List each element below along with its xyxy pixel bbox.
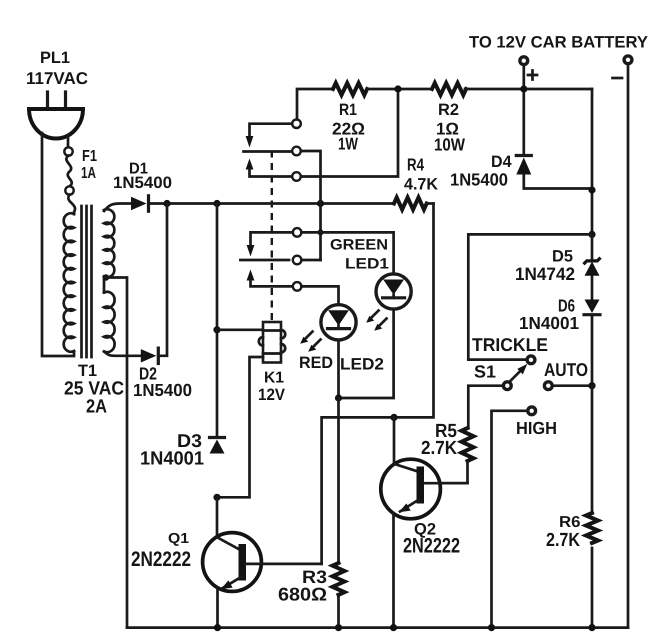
relay contact upper A [292, 119, 301, 128]
label R5 2.7K [421, 421, 457, 459]
label R1 22ohm 1W [332, 101, 365, 154]
transformer T1 core [82, 206, 92, 357]
arrows LED1 emission [366, 311, 386, 331]
node bus-K1 junction [213, 200, 220, 207]
label R6 2.7K [546, 514, 581, 551]
resistor R5 [462, 428, 474, 461]
terminal S1 common [503, 382, 511, 390]
wire battery minus to bus [627, 64, 630, 628]
label R2 1ohm 10W [434, 101, 465, 155]
svg-text:HIGH: HIGH [516, 418, 557, 438]
label D4 1N5400 [450, 153, 512, 190]
node R1 R2 junction [394, 85, 401, 92]
relay contact lower A [293, 228, 302, 237]
svg-text:TO 12V CAR BATTERY: TO 12V CAR BATTERY [469, 34, 648, 52]
svg-text:K1: K1 [264, 370, 284, 387]
node bus Q1 emitter [214, 624, 221, 631]
LED2 red [321, 305, 356, 340]
transistor Q1 [203, 533, 262, 592]
node LED junction A [335, 394, 342, 401]
label D6 1N4001 [519, 296, 579, 334]
wire contact C to R1 right node [301, 89, 398, 177]
LED1 green [376, 274, 411, 309]
wire battery plus to D4 [522, 65, 525, 156]
node Q2 collector junction [390, 414, 397, 421]
wire Q1 emitter to bus [216, 588, 219, 628]
arrows LED2 emission [300, 332, 320, 352]
node AUTO rail junction [588, 382, 595, 389]
label GREEN LED1 [330, 237, 389, 273]
node bus Q2 emitter [390, 624, 397, 631]
wire R6 to bottom bus [591, 548, 594, 628]
wire R3 to bottom bus [337, 597, 340, 628]
svg-text:TRICKLE: TRICKLE [472, 334, 548, 355]
wire secondary bottom to D2 [104, 352, 141, 356]
label minus sign [613, 77, 623, 80]
wire D4 anode to rail [524, 175, 592, 189]
transformer T1 secondary upper winding [104, 209, 114, 277]
svg-text:PL1: PL1 [40, 49, 70, 67]
label PL1 [26, 49, 88, 88]
label D5 1N4742 [515, 248, 575, 285]
svg-text:GREEN: GREEN [330, 237, 388, 254]
wire Q2 collector [393, 417, 396, 464]
svg-text:LED2: LED2 [340, 356, 384, 374]
label D3 1N4001 [140, 430, 204, 470]
svg-text:1N4001: 1N4001 [519, 313, 579, 333]
label T1 25VAC 2A [64, 362, 124, 418]
wire LED2 cathode down [337, 340, 340, 398]
terminal HIGH [528, 407, 536, 415]
svg-text:1A: 1A [81, 165, 96, 182]
label RED LED2 [299, 354, 384, 374]
svg-text:2.7K: 2.7K [421, 438, 457, 459]
wire R2 to right rail [465, 88, 592, 91]
wire lower contact C to LED2 [301, 286, 338, 304]
transformer T1 secondary lower winding [104, 292, 115, 352]
plug PL1 [29, 92, 83, 139]
wire HIGH to bottom bus [492, 411, 528, 628]
arrow relay arm up (upper) [246, 159, 293, 177]
diode D1 [131, 196, 149, 211]
terminal TRICKLE [527, 356, 535, 364]
svg-text:RED: RED [299, 354, 333, 372]
wire main bus from D1 to R4 [149, 202, 395, 205]
relay coil K1 [259, 322, 285, 363]
wire Q1 base [246, 563, 322, 566]
wire R5 to Q2 base [425, 461, 468, 483]
wire plug right cord [67, 135, 70, 147]
relay contact upper B [292, 147, 301, 156]
svg-text:680Ω: 680Ω [278, 584, 327, 605]
zener diode D5 [584, 234, 601, 275]
wire contact A to moving arm [250, 124, 293, 137]
svg-text:4.7K: 4.7K [404, 176, 438, 194]
wire right rail top [591, 89, 594, 234]
svg-text:D4: D4 [491, 153, 512, 171]
resistor R2 [432, 83, 466, 95]
node lower contact bus crossing [318, 229, 324, 235]
wire rail to K1 D3 Q1 [216, 204, 219, 438]
svg-text:D5: D5 [552, 248, 573, 266]
relay blade bar (lower) [240, 259, 289, 262]
terminal battery minus [624, 56, 632, 64]
svg-text:117VAC: 117VAC [26, 69, 88, 88]
svg-text:1N5400: 1N5400 [450, 170, 508, 190]
svg-text:1W: 1W [338, 135, 359, 154]
resistor R4 [394, 198, 427, 210]
svg-text:R6: R6 [559, 514, 581, 531]
transistor Q2 [381, 459, 441, 519]
label R3 680ohm [278, 567, 327, 605]
svg-text:1N4001: 1N4001 [140, 449, 204, 470]
relay contact lower B [293, 256, 302, 265]
node K1 top junction [213, 326, 220, 333]
wire bottom bus [127, 626, 628, 629]
node bus HIGH wire [488, 624, 495, 631]
wire Q2 emitter to bus [392, 514, 395, 628]
node trickle branch junction [588, 231, 595, 238]
switch S1 arm [510, 364, 528, 382]
relay contact upper C [292, 172, 301, 181]
wire K1 coil bottom to Q1 collector node [217, 357, 263, 497]
wire LED node to R3 [337, 398, 340, 563]
arrow relay arm down (upper) [246, 136, 254, 148]
wire Q2 base [424, 482, 468, 485]
terminal AUTO [544, 382, 552, 390]
label F1 1A [81, 148, 97, 182]
node bus-relay junction [317, 200, 324, 207]
wire lower contact A to arm [251, 232, 293, 245]
wire trickle feed [468, 234, 592, 359]
svg-text:1N4742: 1N4742 [515, 264, 575, 284]
svg-text:10W: 10W [434, 135, 465, 155]
node bus R3 [335, 624, 342, 631]
wire S1 common to R5 [468, 386, 503, 428]
wire D2 output up to bus [158, 204, 167, 356]
transformer T1 primary winding [64, 213, 74, 352]
resistor R1 [333, 83, 367, 95]
terminal battery plus [520, 57, 528, 65]
wire contact B to bus [301, 151, 321, 260]
wire plug left cord [42, 133, 74, 356]
wire to K1 coil top [217, 328, 263, 331]
node bus R6 [588, 624, 595, 631]
svg-text:LED1: LED1 [345, 256, 389, 273]
wire lower contact A to LED1 [301, 232, 393, 273]
relay blade bar (upper) [244, 150, 293, 153]
node bus-D2 junction [163, 200, 170, 207]
arrow relay arm down (lower) [247, 245, 255, 257]
label D2 1N5400 [133, 364, 192, 401]
svg-text:T1: T1 [78, 362, 97, 380]
label R4 4.7K [404, 155, 438, 194]
wire D6 to auto node [591, 316, 594, 386]
svg-text:AUTO: AUTO [544, 359, 588, 380]
svg-text:Q1: Q1 [168, 531, 189, 547]
resistor R3 [333, 563, 345, 595]
wire LED1 cathode down [339, 309, 394, 398]
arrow relay arm up (lower) [247, 270, 293, 287]
wire rail to R6 [591, 386, 594, 513]
wire AUTO to rail [552, 384, 592, 387]
svg-text:R4: R4 [407, 155, 424, 175]
svg-text:2.7K: 2.7K [546, 530, 580, 551]
svg-text:S1: S1 [474, 362, 496, 382]
node D3 K1 Q1 junction [213, 494, 220, 501]
resistor R6 [586, 513, 598, 543]
relay contact lower C [293, 282, 302, 291]
wire fuse to primary [68, 195, 75, 214]
dashed relay mechanical link [271, 151, 273, 323]
wire center tap to bottom bus [104, 278, 127, 628]
label Q1 2N2222 [131, 531, 191, 571]
wire Q1 collector [216, 497, 219, 537]
wire lower contact B to bus drop [301, 259, 320, 262]
svg-text:F1: F1 [82, 148, 97, 165]
svg-text:R1: R1 [339, 101, 357, 119]
label Q2 2N2222 [403, 521, 460, 558]
svg-text:1N5400: 1N5400 [113, 174, 172, 192]
label plus sign [528, 71, 537, 80]
diode D2 [141, 348, 159, 363]
wire secondary tap link [103, 277, 106, 293]
wire secondary top to D1 [104, 204, 131, 212]
wire R4 out [427, 202, 434, 205]
wire D5 to D6 [591, 276, 594, 300]
wire contact A up to R1 left [297, 89, 333, 119]
wire mid crossbar [322, 204, 434, 564]
fuse F1 [64, 147, 73, 194]
label D1 1N5400 [113, 161, 172, 193]
wire R1 to R2 [367, 88, 432, 91]
node D4 rail junction [588, 186, 595, 193]
diode D3 [210, 438, 225, 454]
node plus wire R2 crossing [520, 85, 527, 92]
diode D4 [516, 156, 531, 175]
svg-text:12V: 12V [258, 386, 285, 404]
label K1 12V [258, 370, 285, 405]
diode D6 [584, 300, 600, 315]
svg-text:2N2222: 2N2222 [131, 548, 191, 571]
node center tap [103, 274, 109, 280]
svg-text:2A: 2A [86, 397, 107, 418]
svg-text:2N2222: 2N2222 [403, 535, 460, 558]
svg-text:R2: R2 [438, 101, 459, 119]
svg-text:1N5400: 1N5400 [133, 380, 192, 400]
